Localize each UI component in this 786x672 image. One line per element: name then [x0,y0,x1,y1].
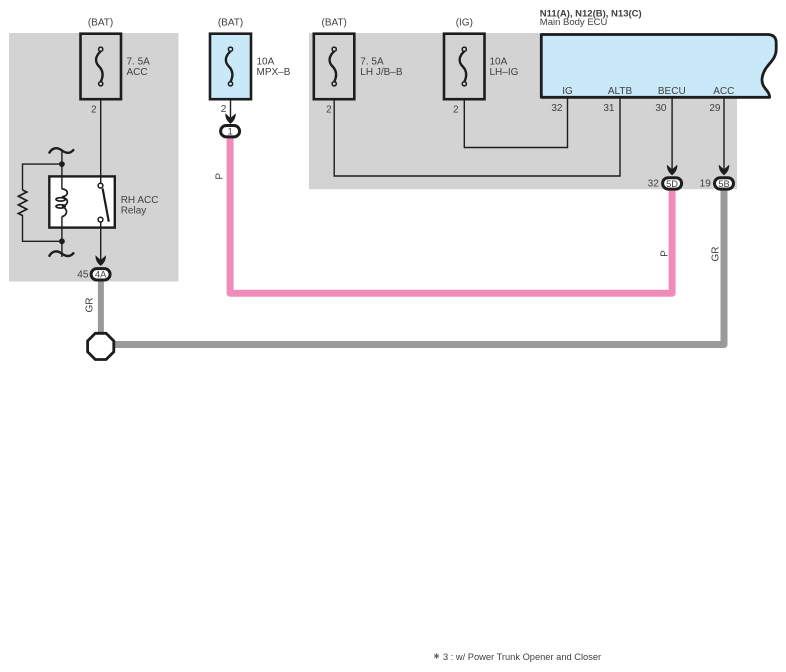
wire: ECU BECU pin stub [671,98,673,170]
arrow into connector 5B [719,165,730,176]
relay switch blade [103,189,109,222]
svg-text:LH J/B–B: LH J/B–B [360,67,403,78]
fuse LH J/B-B element [330,51,337,82]
relay RH ACC box [49,176,115,227]
fuse MPX-B element [226,51,233,82]
junction dot top [59,161,65,167]
wire: fuse ACC to relay [100,99,102,184]
svg-text:GR: GR [84,298,95,313]
wire break squiggle top [49,148,74,153]
connector oval 5B [715,178,734,189]
connector oval 1 [221,126,240,137]
wire gray GR: splice to connector 5B [113,188,724,345]
svg-text:30: 30 [655,103,667,114]
svg-text:ACC: ACC [713,86,734,97]
svg-text:45: 45 [77,270,89,281]
svg-text:10A: 10A [257,57,275,68]
relay switch contact bottom [98,217,103,222]
svg-text:3 : w/ Power Trunk Opener and: 3 : w/ Power Trunk Opener and Closer [443,652,601,662]
svg-text:Relay: Relay [121,206,147,217]
wire: fuse MPX-B to connector 1 [230,99,232,118]
svg-text:7. 5A: 7. 5A [360,57,384,68]
wire gray GR: connector 4A down to splice [98,279,104,336]
svg-text:31: 31 [603,103,615,114]
fuse MPX-B box [210,34,251,100]
wire: resistor branch [23,164,62,190]
svg-text:10A: 10A [490,57,508,68]
svg-text:(BAT): (BAT) [218,18,243,29]
relay switch contact top [98,183,103,188]
svg-text:ALTB: ALTB [608,86,633,97]
junction dot bottom [59,238,65,244]
wire: fuse LH-IG to ECU IG [464,98,567,148]
fuse LH-IG element [460,51,467,82]
wire pink P: connector 1 to 5D [230,137,672,293]
svg-text:MPX–B: MPX–B [257,67,291,78]
svg-text:(BAT): (BAT) [88,18,113,29]
fuse LH J/B-B box [314,34,355,100]
wire break squiggle bottom [49,251,74,256]
svg-text:5D: 5D [666,179,678,189]
svg-text:32: 32 [648,179,660,190]
arrow into connector 5D [667,165,678,176]
svg-text:2: 2 [221,104,227,115]
svg-text:4A: 4A [95,270,107,280]
fuse ACC element [96,51,103,82]
svg-text:ACC: ACC [127,67,148,78]
svg-text:32: 32 [551,103,563,114]
svg-text:(BAT): (BAT) [322,18,347,29]
svg-text:7. 5A: 7. 5A [127,57,151,68]
svg-text:29: 29 [709,103,721,114]
svg-text:(IG): (IG) [456,18,473,29]
svg-text:2: 2 [453,105,459,116]
svg-text:P: P [214,173,225,180]
arrow into connector 1 [225,113,236,124]
middle component ground box [309,33,737,189]
left component ground box [9,33,179,282]
resistor zigzag [18,190,26,216]
splice octagon node [88,333,114,359]
wire: relay to connector 4A [100,221,102,260]
connector oval 4A [91,269,110,280]
svg-text:P: P [659,250,670,257]
svg-text:5B: 5B [718,179,729,189]
relay coil [56,189,67,217]
footnote star symbol [434,653,439,659]
svg-text:IG: IG [562,86,573,97]
svg-text:RH ACC: RH ACC [121,195,159,206]
svg-text:Main Body ECU: Main Body ECU [540,17,608,28]
svg-text:BECU: BECU [658,86,686,97]
wire: fuse LH J/B-B to ECU ALTB [334,98,620,176]
wire: relay coil branch vertical top [61,151,63,189]
svg-text:19: 19 [700,179,712,190]
fuse ACC box [81,34,122,100]
arrow into connector 4A [95,255,106,266]
svg-text:2: 2 [91,105,97,116]
svg-text:GR: GR [711,247,722,262]
wire: ECU ACC pin stub [723,98,725,170]
wire: relay coil branch vertical bottom [61,217,63,258]
connector oval 5D [663,178,682,189]
main body ECU box [541,35,776,98]
svg-text:1: 1 [227,127,232,138]
fuse LH-IG box [444,34,485,100]
svg-text:LH–IG: LH–IG [490,67,519,78]
svg-text:2: 2 [326,105,332,116]
